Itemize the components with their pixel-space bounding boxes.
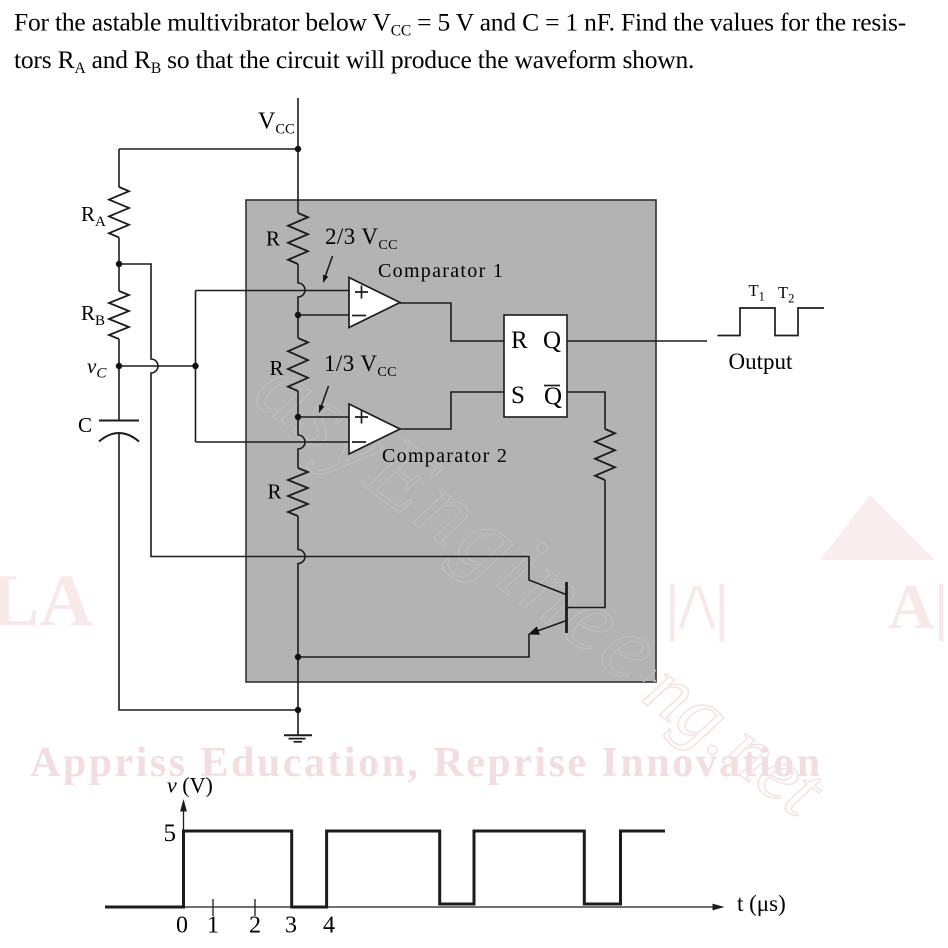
svg-text:R: R <box>266 227 280 251</box>
svg-text:T1: T1 <box>749 281 765 304</box>
svg-text:S: S <box>511 382 525 409</box>
svg-text:tors RA and RB so that the cir: tors RA and RB so that the circuit will … <box>14 45 694 77</box>
svg-text:VCC: VCC <box>258 109 295 138</box>
svg-text:v (V): v (V) <box>167 773 213 798</box>
svg-text:2: 2 <box>249 913 261 939</box>
svg-text:3: 3 <box>285 913 297 939</box>
svg-text:RA: RA <box>81 202 106 230</box>
svg-text:0: 0 <box>176 913 188 939</box>
svg-text:LA: LA <box>0 560 93 642</box>
svg-text:Comparator 2: Comparator 2 <box>382 445 508 467</box>
svg-text:For the astable multivibrator: For the astable multivibrator below VCC … <box>14 8 906 40</box>
svg-text:4: 4 <box>323 913 335 939</box>
svg-text:R: R <box>511 327 528 354</box>
svg-text:vC: vC <box>87 354 107 382</box>
svg-text:R: R <box>268 480 282 504</box>
svg-text:Comparator 1: Comparator 1 <box>378 260 504 282</box>
svg-text:1: 1 <box>207 913 219 939</box>
svg-text:R: R <box>270 356 284 380</box>
svg-text:t (μs): t (μs) <box>737 891 786 916</box>
svg-text:A|: A| <box>888 571 948 642</box>
svg-text:C: C <box>78 413 92 437</box>
svg-text:Q: Q <box>543 327 561 354</box>
svg-text:|/\|: |/\| <box>665 571 729 642</box>
svg-text:Q: Q <box>544 383 562 410</box>
svg-text:5: 5 <box>164 820 177 847</box>
svg-text:Output: Output <box>729 349 794 374</box>
svg-text:T2: T2 <box>778 283 794 306</box>
svg-text:RB: RB <box>81 301 105 329</box>
